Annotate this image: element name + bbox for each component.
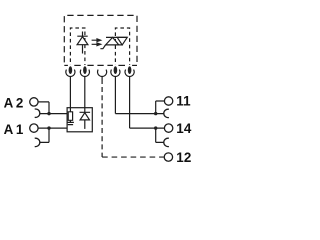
- svg-text:11: 11: [176, 94, 191, 109]
- svg-text:14: 14: [176, 121, 192, 136]
- svg-text:A2: A2: [4, 95, 26, 110]
- svg-text:12: 12: [176, 150, 191, 165]
- svg-text:A1: A1: [4, 122, 26, 137]
